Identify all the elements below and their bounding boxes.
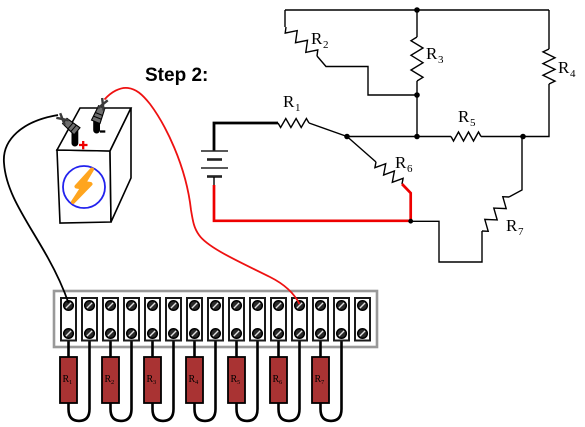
battery symbol plate short 2 xyxy=(207,175,222,178)
terminal block 7 xyxy=(187,298,202,341)
label R1 xyxy=(283,92,301,114)
wire terminal 5 to resistor R3 xyxy=(151,334,154,357)
wire loop resistor R2 to terminal 4 xyxy=(111,334,132,421)
svg-text:R: R xyxy=(426,44,438,63)
wire R3 top lead xyxy=(416,10,418,37)
svg-text:1: 1 xyxy=(295,102,301,114)
node R4-R5-R7 junction xyxy=(520,134,526,140)
battery box side face xyxy=(110,108,131,222)
label R2 xyxy=(311,29,329,51)
terminal block 15 xyxy=(355,298,370,341)
svg-text:Step 2:: Step 2: xyxy=(145,65,208,86)
wire R2 left lead xyxy=(284,10,286,27)
wire terminal 1 to resistor R1 xyxy=(67,334,70,357)
label R4 xyxy=(558,58,576,80)
terminal block 1 xyxy=(61,298,76,341)
terminal block 3 xyxy=(103,298,118,341)
label R5 xyxy=(458,107,476,129)
resistor R7 (terminal strip) xyxy=(312,357,329,403)
resistor R5 (terminal strip) xyxy=(228,357,245,403)
node top rail junction xyxy=(414,7,420,13)
terminal block 8 xyxy=(208,298,223,341)
wire loop resistor R3 to terminal 6 xyxy=(153,334,174,421)
svg-text:5: 5 xyxy=(237,379,240,386)
svg-text:3: 3 xyxy=(438,54,444,66)
battery symbol plate long 1 xyxy=(201,150,228,152)
red lead wire from right clip xyxy=(105,88,300,304)
node R2-R3 junction xyxy=(414,92,420,98)
wire loop resistor R6 to terminal 12 xyxy=(279,334,300,421)
svg-text:R: R xyxy=(395,153,407,172)
battery box top face xyxy=(57,108,131,151)
wire top rail xyxy=(285,9,549,11)
resistor R3 (terminal strip) xyxy=(144,357,161,403)
alligator clip right xyxy=(91,97,109,123)
terminal block 10 xyxy=(250,298,265,341)
resistor R2 xyxy=(285,27,318,56)
svg-text:4: 4 xyxy=(570,68,576,80)
node mid-left junction xyxy=(344,134,350,140)
wire loop resistor R7 to terminal 14 xyxy=(321,334,342,421)
battery logo blue circle xyxy=(63,166,105,208)
battery terminal left xyxy=(72,126,79,147)
resistor R1 xyxy=(278,119,309,128)
node R3 bottom junction xyxy=(414,134,420,140)
wire red highlighted loop xyxy=(214,184,411,221)
wire mid rail xyxy=(347,136,451,138)
wire terminal 3 to resistor R2 xyxy=(109,334,112,357)
resistor R3 xyxy=(411,37,423,81)
resistor R4 xyxy=(543,49,555,84)
wire battery to R1 (bold) xyxy=(214,123,278,151)
battery terminal right xyxy=(93,114,100,134)
label R7 xyxy=(506,216,524,238)
label R3 xyxy=(426,44,444,66)
battery plus label xyxy=(79,141,88,149)
svg-text:2: 2 xyxy=(111,379,114,386)
wire loop resistor R1 to terminal 2 xyxy=(69,334,90,421)
svg-text:3: 3 xyxy=(153,379,156,386)
svg-text:R: R xyxy=(558,58,570,77)
wire junction to R6 xyxy=(347,137,376,163)
wire R4 bottom lead xyxy=(523,84,549,137)
svg-text:R: R xyxy=(506,216,518,235)
svg-text:1: 1 xyxy=(69,379,72,386)
svg-text:R: R xyxy=(311,29,323,48)
label R6 xyxy=(395,153,413,175)
terminal block 12 xyxy=(292,298,307,341)
resistor R7 xyxy=(482,197,509,232)
svg-text:5: 5 xyxy=(470,117,476,129)
wire R4 top lead xyxy=(548,10,550,49)
battery symbol plate long 2 xyxy=(201,167,228,169)
terminal block 5 xyxy=(145,298,160,341)
wire R5 right lead xyxy=(481,136,523,138)
wire R1 to junction xyxy=(309,123,347,137)
battery box front face xyxy=(57,150,111,223)
wire terminal 7 to resistor R4 xyxy=(193,334,196,357)
wire R2 bottom lead xyxy=(317,56,417,95)
resistor R2 (terminal strip) xyxy=(102,357,119,403)
terminal block 2 xyxy=(82,298,97,341)
battery minus label xyxy=(100,130,105,132)
battery symbol plate short 1 xyxy=(207,158,222,161)
battery logo lightning bolt xyxy=(73,170,92,203)
black lead wire from left clip xyxy=(4,115,69,303)
terminal block 14 xyxy=(334,298,349,341)
svg-text:6: 6 xyxy=(407,163,413,175)
node red junction dot xyxy=(408,219,413,224)
resistor R1 (terminal strip) xyxy=(60,357,77,403)
terminal block 6 xyxy=(166,298,181,341)
wire terminal 11 to resistor R6 xyxy=(277,334,280,357)
resistor R6 (terminal strip) xyxy=(270,357,287,403)
terminal strip frame xyxy=(54,291,377,347)
svg-text:R: R xyxy=(458,107,470,126)
terminal block 9 xyxy=(229,298,244,341)
wire R3 bottom lead xyxy=(416,81,418,137)
wire terminal 13 to resistor R7 xyxy=(319,334,322,357)
terminal block 4 xyxy=(124,298,139,341)
wire R7 top lead xyxy=(509,137,522,198)
svg-text:7: 7 xyxy=(518,226,524,238)
svg-text:2: 2 xyxy=(323,39,329,51)
resistor R6 xyxy=(375,162,403,184)
terminal block 11 xyxy=(271,298,286,341)
resistor R4 (terminal strip) xyxy=(186,357,203,403)
resistor R5 xyxy=(451,132,481,141)
svg-text:R: R xyxy=(283,92,295,111)
wire loop resistor R5 to terminal 10 xyxy=(237,334,258,421)
wire red junction to R7 (step shape) xyxy=(411,221,482,262)
wire battery bottom stub xyxy=(213,177,215,186)
terminal block 13 xyxy=(313,298,328,341)
alligator clip left xyxy=(55,112,80,135)
wire loop resistor R4 to terminal 8 xyxy=(195,334,216,421)
wire terminal 9 to resistor R5 xyxy=(235,334,238,357)
